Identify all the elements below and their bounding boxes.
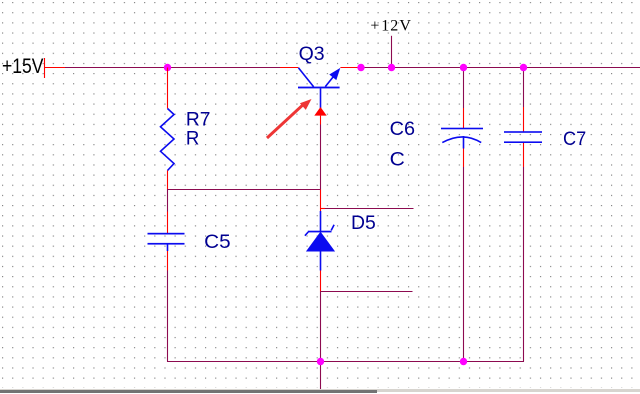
svg-text:Q3: Q3 [299,44,325,65]
wire C5 bottom to rail [167,271,169,362]
svg-text:C7: C7 [563,129,586,150]
junction dot rail D5 [317,358,324,365]
wire D5 to rail [320,292,322,362]
wire branch to D5 [320,190,322,212]
junction dot C7 top [520,64,527,71]
svg-text:C: C [390,150,405,171]
wire C6 to rail [463,167,465,362]
junction dot C6 top [460,64,467,71]
wire D5 bottom red [320,271,322,292]
svg-text:D5: D5 [351,213,376,234]
capacitor C6 [441,68,483,168]
power port +12V [370,18,411,68]
svg-text:+: + [370,18,379,35]
window bottom edge [0,389,640,393]
svg-text:C6: C6 [390,119,415,140]
wire C5 branch horizontal [167,189,321,191]
junction dot +12V [388,64,395,71]
wire top rail left [65,67,280,69]
svg-text:V: V [399,18,411,35]
svg-text:C5: C5 [204,232,231,253]
wire R7 to C5 [167,190,169,212]
wire base down to branch [320,125,322,190]
junction dot emitter [357,64,364,71]
resistor R7 [161,68,175,190]
annotation arrow [267,99,312,138]
wire top rail right [361,67,640,69]
svg-text:2: 2 [390,18,398,35]
svg-text:R: R [186,129,200,150]
svg-text:+15V: +15V [2,55,44,78]
junction dot rail C6 [460,358,467,365]
wire base red segment [320,116,322,125]
wire bottom rail [167,361,524,363]
svg-text:1: 1 [381,18,389,35]
wire D5 lower right branch [321,291,413,293]
power port +15V [2,55,65,78]
transistor Q3 [280,68,361,109]
wire D5 upper right branch [320,208,414,210]
junction dot R7 top [164,64,171,71]
wire C7 to rail [523,167,525,362]
red arrow on base wire [314,107,326,116]
zener diode D5 [305,211,335,271]
svg-text:R7: R7 [186,109,211,130]
capacitor C5 [148,212,185,271]
capacitor C7 [504,68,542,168]
wire D5 below rail [320,362,322,391]
